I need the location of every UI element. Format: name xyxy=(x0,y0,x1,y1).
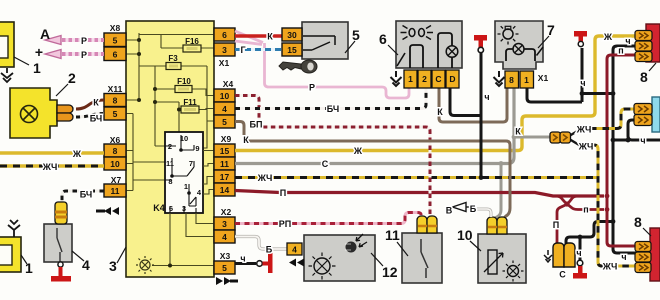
connector X6 pin 8 xyxy=(104,144,126,157)
cluster pin 4 xyxy=(287,243,302,255)
svg-text:БЧ: БЧ xyxy=(90,114,102,124)
svg-text:2: 2 xyxy=(422,74,427,84)
svg-text:10: 10 xyxy=(220,91,230,101)
Б wire with В continuation arrow xyxy=(477,209,491,217)
svg-text:Г: Г xyxy=(240,45,245,55)
svg-text:БЧ: БЧ xyxy=(327,104,339,114)
svg-text:5: 5 xyxy=(113,109,118,119)
mounting block 3 (fuse/relay box) xyxy=(126,21,214,277)
connector X11 pin 8 xyxy=(104,94,126,107)
wire БП (white/red dashed) X4 pin10 to switch 11 xyxy=(235,96,430,217)
svg-text:15: 15 xyxy=(220,146,230,156)
svg-text:БЧ: БЧ xyxy=(80,190,92,200)
ground symbol left of pin 1 xyxy=(391,71,402,86)
svg-text:К: К xyxy=(515,127,521,137)
svg-text:11: 11 xyxy=(166,159,174,168)
connector X3 pin 5 xyxy=(214,261,235,274)
svg-text:8: 8 xyxy=(634,214,642,230)
arrow + (pink) xyxy=(45,50,61,59)
svg-text:ч: ч xyxy=(640,136,645,146)
svg-text:РП: РП xyxy=(279,219,291,229)
component number labels with leaders xyxy=(14,36,656,266)
svg-text:ЖЧ: ЖЧ xyxy=(42,162,58,172)
svg-text:7: 7 xyxy=(189,159,193,168)
svg-text:X8: X8 xyxy=(110,23,121,33)
svg-text:ЖЧ: ЖЧ xyxy=(602,262,618,272)
svg-text:П: П xyxy=(280,188,286,198)
black ground wire of hazard switch pin D xyxy=(450,88,481,116)
wire БЧ (white/black) from X7 pin 11 to switch 4 xyxy=(62,191,104,202)
connector X9 pin 15 xyxy=(214,144,235,157)
hazard lamps icon xyxy=(409,29,415,37)
lamp 2 connector pins xyxy=(57,105,73,121)
svg-text:X9: X9 xyxy=(221,134,232,144)
svg-text:ч: ч xyxy=(580,78,585,88)
connector X6 pin 10 xyxy=(104,157,126,170)
wire К from side lamp 2 to X11 pin 8 xyxy=(76,100,104,109)
wire БЧ (white/black dashed) X4 pin4 to hazard switch pin 2 xyxy=(235,88,426,109)
svg-text:5: 5 xyxy=(113,36,118,46)
rear lamp 8 (bottom right) xyxy=(650,228,660,281)
connector X1 pin 3 xyxy=(214,43,235,56)
illumination rheostat 10 xyxy=(478,234,526,283)
wire ЖЧ vertical to rear lamp 8 xyxy=(590,145,636,266)
rheostat 10 connector xyxy=(487,217,507,234)
wire Ч (black) X3 pin5 to ground xyxy=(235,262,256,265)
svg-text:ЖЧ: ЖЧ xyxy=(576,125,592,135)
connector X1 pin 6 xyxy=(214,28,235,41)
svg-text:ЖЧ: ЖЧ xyxy=(257,173,273,183)
svg-text:3: 3 xyxy=(222,219,227,229)
ignition switch 5 xyxy=(302,22,348,59)
wire С branch to rheostat 10 xyxy=(495,164,501,219)
circle and red ground under switch 4 xyxy=(58,262,63,267)
wire П (dark red) vertical to lamps 8 xyxy=(607,55,636,246)
connector X2 pin 3 xyxy=(214,217,235,230)
svg-text:2: 2 xyxy=(168,142,172,151)
connector X7 pin 11 xyxy=(104,184,126,197)
front turn lamp 1 (top left) xyxy=(0,22,14,67)
ground symbol above bottom lamp 1 xyxy=(8,220,20,237)
ground (red) between 5 and 6 xyxy=(474,35,487,41)
svg-text:ЖЧ: ЖЧ xyxy=(578,142,594,152)
svg-text:11: 11 xyxy=(220,159,229,169)
wire ЖЧ to side repeater (cyan) xyxy=(590,109,635,129)
wire К (red) X1 pin6 to ignition pin 30 xyxy=(235,34,282,38)
connector X11 pin 5 xyxy=(104,107,126,120)
svg-text:+: + xyxy=(35,44,43,60)
joint connector fork stubs xyxy=(570,130,580,146)
svg-text:3: 3 xyxy=(182,204,186,213)
fuse F3 xyxy=(166,54,181,70)
brake/turn switch 4 xyxy=(44,224,72,262)
hazard relay-switch 11 xyxy=(402,233,442,283)
svg-text:Р: Р xyxy=(309,83,315,93)
svg-text:3: 3 xyxy=(109,258,117,274)
svg-text:п: п xyxy=(618,46,623,56)
svg-text:К: К xyxy=(267,32,273,42)
svg-text:Р: Р xyxy=(81,36,87,46)
relay K4 box xyxy=(153,132,203,213)
hazard switch 6 pins 1 2 С D xyxy=(404,70,459,88)
svg-text:6: 6 xyxy=(169,204,173,213)
svg-text:К: К xyxy=(243,135,249,145)
svg-text:X3: X3 xyxy=(220,251,231,261)
wire Р (pink dashed) X8 pin5 to arrow А xyxy=(62,38,104,42)
svg-text:Ж: Ж xyxy=(353,146,363,156)
svg-text:ч: ч xyxy=(576,248,581,258)
wire Ж (yellow) left to X6 pin 8 xyxy=(0,151,104,155)
svg-text:1: 1 xyxy=(33,60,41,76)
svg-text:15: 15 xyxy=(287,45,297,55)
svg-text:6: 6 xyxy=(113,50,118,60)
svg-text:В: В xyxy=(446,206,453,216)
svg-text:4: 4 xyxy=(222,232,227,242)
ignition pin 30 xyxy=(282,28,302,41)
wire С stub to joint connector xyxy=(514,136,551,139)
svg-text:6: 6 xyxy=(379,31,387,47)
turn signal switch 7 xyxy=(495,21,543,69)
side repeater connector (cyan box) xyxy=(652,97,660,132)
wire Р (pink) from X1 area to hazard switch pin 1 xyxy=(235,31,409,98)
relay K4 internals xyxy=(165,135,196,213)
svg-text:А: А xyxy=(40,26,50,42)
fuse F16 xyxy=(183,37,201,52)
svg-text:11: 11 xyxy=(385,227,400,243)
svg-text:D: D xyxy=(449,74,455,84)
fuse F10 xyxy=(175,77,192,93)
key icon xyxy=(279,60,317,73)
hazard switch 6 xyxy=(396,21,462,68)
switch 11 connector xyxy=(417,216,437,233)
black branch to lamp ground xyxy=(579,237,582,260)
connector X9 pin 14 xyxy=(214,183,235,196)
С connector (2 pins) near ground xyxy=(553,243,575,267)
svg-text:7: 7 xyxy=(547,22,555,38)
wire К (brown) X4 pin5 to rheostat 10 xyxy=(235,122,510,219)
svg-text:X4: X4 xyxy=(223,79,234,89)
svg-text:Ж: Ж xyxy=(603,32,613,42)
wire РП (pink/red dashed) X2 pin3 to switch 11 xyxy=(235,213,421,224)
black branch to С connector xyxy=(566,222,613,246)
svg-text:8: 8 xyxy=(113,146,118,156)
ignition pin 15 xyxy=(282,43,302,56)
continuation arrow below pin 4 xyxy=(289,259,304,267)
wire С (grey) X9 pin11 to switch 7 pin 8 xyxy=(235,87,514,164)
svg-text:С: С xyxy=(559,270,566,280)
svg-text:П: П xyxy=(553,220,559,230)
wire ЖЧ (yellow/black) left to X6 pin 10 xyxy=(0,164,104,168)
ground symbol left of switch 7 pins xyxy=(494,71,505,86)
svg-text:ч: ч xyxy=(625,36,630,46)
svg-text:1: 1 xyxy=(184,182,188,191)
rear lamp 8 connector rows xyxy=(635,31,652,62)
svg-text:п: п xyxy=(583,205,588,215)
svg-text:С: С xyxy=(322,159,329,169)
svg-text:5: 5 xyxy=(352,27,360,43)
svg-text:10: 10 xyxy=(110,159,120,169)
block interior lamp symbol xyxy=(136,256,154,274)
black wire switch 7 pin1 / ground / Ч net xyxy=(527,87,582,102)
svg-text:11: 11 xyxy=(111,186,120,196)
relay outputs to X2/X3 and block lamp wiring xyxy=(152,151,214,266)
svg-text:9: 9 xyxy=(195,144,199,153)
continuation arrow below X3 xyxy=(216,277,231,285)
svg-text:X2: X2 xyxy=(221,207,232,217)
svg-text:8: 8 xyxy=(640,69,648,85)
connector X2 pin 4 xyxy=(214,230,235,243)
wire Р (pink dashed) X8 pin6 to arrow + xyxy=(62,52,104,56)
connector X4 pin 10 xyxy=(214,89,235,102)
svg-text:4: 4 xyxy=(82,257,90,273)
svg-text:БП: БП xyxy=(250,120,263,130)
wire П X-junction branches xyxy=(556,196,604,210)
front turn lamp 1 (bottom left) xyxy=(0,237,21,272)
svg-text:17: 17 xyxy=(220,172,230,182)
svg-text:Б: Б xyxy=(266,245,273,255)
wire Б (white) X2 pin4 to cluster pin 4 xyxy=(235,237,287,250)
svg-text:4: 4 xyxy=(222,104,227,114)
svg-text:К: К xyxy=(93,98,99,108)
svg-text:X1: X1 xyxy=(538,73,549,83)
ground fir symbol left of С connector xyxy=(544,250,552,262)
ground (red) right of 7 xyxy=(574,31,587,37)
svg-text:6: 6 xyxy=(222,30,227,40)
svg-text:К: К xyxy=(437,107,443,117)
switch 4 connector xyxy=(55,202,67,224)
svg-text:1: 1 xyxy=(25,260,33,276)
svg-text:5: 5 xyxy=(222,263,227,273)
ground (red) near X3 xyxy=(263,262,269,266)
svg-text:14: 14 xyxy=(220,185,230,195)
wire Г (blue dashed) X1 pin3 to ignition pin 15 xyxy=(235,48,282,51)
wire Ж (yellow) X9 pin15 to right lamp 8 xyxy=(235,36,636,151)
block internal wire: X8 feed bus xyxy=(126,33,214,191)
svg-text:F10: F10 xyxy=(177,77,191,86)
svg-text:Б: Б xyxy=(470,204,477,214)
instrument cluster 12 xyxy=(304,234,375,281)
wire БЧ from side lamp 2 to X11 pin 5 xyxy=(76,114,104,118)
svg-text:ч: ч xyxy=(484,92,489,102)
svg-text:ч: ч xyxy=(240,254,245,264)
svg-text:12: 12 xyxy=(382,264,398,280)
svg-text:F3: F3 xyxy=(168,54,178,63)
rear lamp 8 (top right) xyxy=(646,24,660,62)
svg-text:1: 1 xyxy=(408,74,413,84)
svg-text:ч: ч xyxy=(621,252,626,262)
ground (red) below С connector xyxy=(578,266,583,274)
arrow А (pink) xyxy=(45,36,61,45)
fuse F11 xyxy=(181,98,199,113)
side repeater lamp 2 xyxy=(10,88,57,138)
svg-text:Р: Р xyxy=(81,50,87,60)
wire К (brown) hazard switch pin С to switch 7 pin 8 xyxy=(439,87,507,122)
black branch to side repeater connector (cyan) xyxy=(628,120,660,140)
continuation arrow below X7 xyxy=(104,207,119,215)
connector X9 pin 17 xyxy=(214,170,235,183)
connector X9 pin 11 xyxy=(214,157,235,170)
svg-text:8: 8 xyxy=(113,96,118,106)
wire ЖЧ X9 pin17 horizontal xyxy=(235,176,598,179)
svg-text:2: 2 xyxy=(68,70,76,86)
svg-text:30: 30 xyxy=(287,30,297,40)
svg-text:8: 8 xyxy=(509,75,514,85)
svg-text:8: 8 xyxy=(168,177,172,186)
switch 7 pins 8 1 xyxy=(505,71,534,88)
svg-text:Ж: Ж xyxy=(72,149,82,159)
connector X4 pin 4 xyxy=(214,102,235,115)
svg-text:10: 10 xyxy=(180,134,188,143)
connector X8 pin 6 xyxy=(104,47,126,61)
ground symbol under lamp 1 xyxy=(1,68,13,82)
connector X4 pin 5 xyxy=(214,115,235,128)
connector X8 pin 5 xyxy=(104,33,126,47)
block internal junction dots xyxy=(137,38,181,112)
svg-text:10: 10 xyxy=(457,227,473,243)
black Ч trunk on right side xyxy=(613,46,636,253)
svg-text:X1: X1 xyxy=(219,58,230,68)
svg-text:5: 5 xyxy=(222,117,227,127)
svg-text:K4: K4 xyxy=(153,203,165,213)
svg-text:3: 3 xyxy=(222,45,227,55)
wire П (dark red) X9 pin14 to right xyxy=(235,191,604,197)
svg-text:X11: X11 xyxy=(108,84,123,94)
svg-text:1: 1 xyxy=(524,75,529,85)
joint connector (2 pins) xyxy=(550,132,571,143)
svg-text:С: С xyxy=(435,74,441,84)
junction dots on С and К wires xyxy=(499,161,504,166)
svg-text:4: 4 xyxy=(292,245,297,255)
